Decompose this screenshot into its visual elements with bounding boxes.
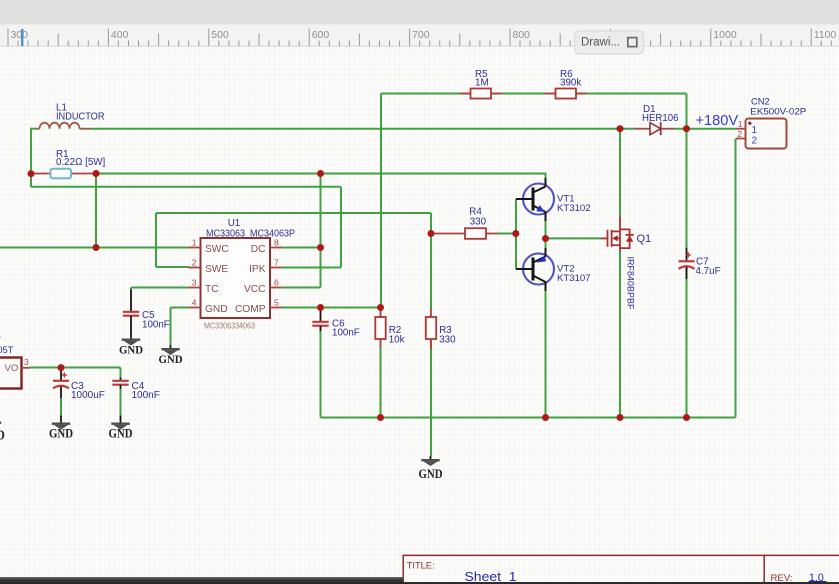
svg-text:Sheet_1: Sheet_1	[465, 570, 517, 584]
svg-text:805T: 805T	[0, 344, 14, 355]
svg-text:1100: 1100	[814, 29, 837, 41]
svg-text:390k: 390k	[560, 77, 581, 88]
svg-text:VCC: VCC	[244, 284, 266, 295]
svg-text:1000: 1000	[713, 29, 737, 41]
svg-text:GND: GND	[0, 428, 5, 443]
svg-text:EK500V-02P: EK500V-02P	[750, 105, 806, 116]
svg-text:2: 2	[192, 258, 197, 268]
svg-text:3: 3	[24, 357, 29, 367]
svg-text:1: 1	[752, 125, 758, 136]
svg-text:1: 1	[192, 238, 197, 248]
svg-text:KT3107: KT3107	[557, 273, 591, 284]
svg-text:3: 3	[192, 278, 197, 288]
svg-text:DC: DC	[251, 244, 266, 255]
svg-text:COMP: COMP	[235, 304, 266, 315]
svg-text:Drawi...: Drawi...	[581, 37, 620, 49]
svg-text:100nF: 100nF	[132, 390, 160, 401]
svg-text:800: 800	[513, 29, 531, 41]
svg-text:GND: GND	[119, 343, 143, 357]
svg-text:U1: U1	[228, 218, 241, 229]
svg-text:MC33063_MC34063P: MC33063_MC34063P	[206, 229, 295, 240]
svg-text:4.7uF: 4.7uF	[696, 266, 721, 277]
svg-text:700: 700	[412, 29, 430, 41]
svg-text:500: 500	[211, 29, 229, 41]
svg-text:0.22Ω [5W]: 0.22Ω [5W]	[56, 157, 106, 168]
svg-text:SWE: SWE	[205, 264, 228, 275]
svg-text:1M: 1M	[475, 77, 489, 88]
svg-text:400: 400	[111, 29, 129, 41]
svg-text:IPK: IPK	[249, 264, 266, 275]
svg-text:6: 6	[274, 278, 279, 288]
svg-text:IRF840BPBF: IRF840BPBF	[625, 257, 636, 310]
svg-text:TC: TC	[205, 284, 219, 295]
svg-text:600: 600	[312, 29, 330, 41]
svg-text:KT3102: KT3102	[557, 203, 591, 214]
svg-text:300: 300	[11, 29, 29, 41]
svg-text:GND: GND	[159, 352, 183, 366]
svg-text:8: 8	[0, 330, 1, 341]
svg-text:VO: VO	[5, 363, 19, 374]
svg-text:GND: GND	[419, 467, 443, 481]
svg-text:MC3306334063: MC3306334063	[204, 321, 255, 331]
svg-text:TITLE:: TITLE:	[407, 560, 435, 570]
svg-text:1: 1	[738, 119, 743, 129]
svg-text:330: 330	[439, 334, 456, 345]
svg-text:5: 5	[274, 298, 279, 308]
svg-text:INDUCTOR: INDUCTOR	[56, 112, 105, 123]
svg-text:SWC: SWC	[205, 244, 229, 255]
svg-text:1000uF: 1000uF	[71, 390, 105, 401]
svg-text:4: 4	[192, 298, 197, 308]
svg-text:330: 330	[470, 216, 487, 227]
svg-text:2: 2	[737, 129, 742, 139]
svg-text:+180V: +180V	[696, 113, 739, 129]
svg-text:GND: GND	[109, 427, 133, 441]
svg-text:2: 2	[752, 136, 758, 147]
svg-text:HER106: HER106	[642, 113, 679, 124]
svg-text:100nF: 100nF	[142, 319, 170, 330]
svg-text:100nF: 100nF	[332, 328, 360, 339]
svg-text:7: 7	[274, 258, 279, 268]
svg-text:10k: 10k	[389, 334, 405, 345]
svg-text:GND: GND	[49, 427, 73, 441]
svg-text:Q1: Q1	[637, 233, 652, 245]
svg-text:GND: GND	[205, 304, 228, 315]
